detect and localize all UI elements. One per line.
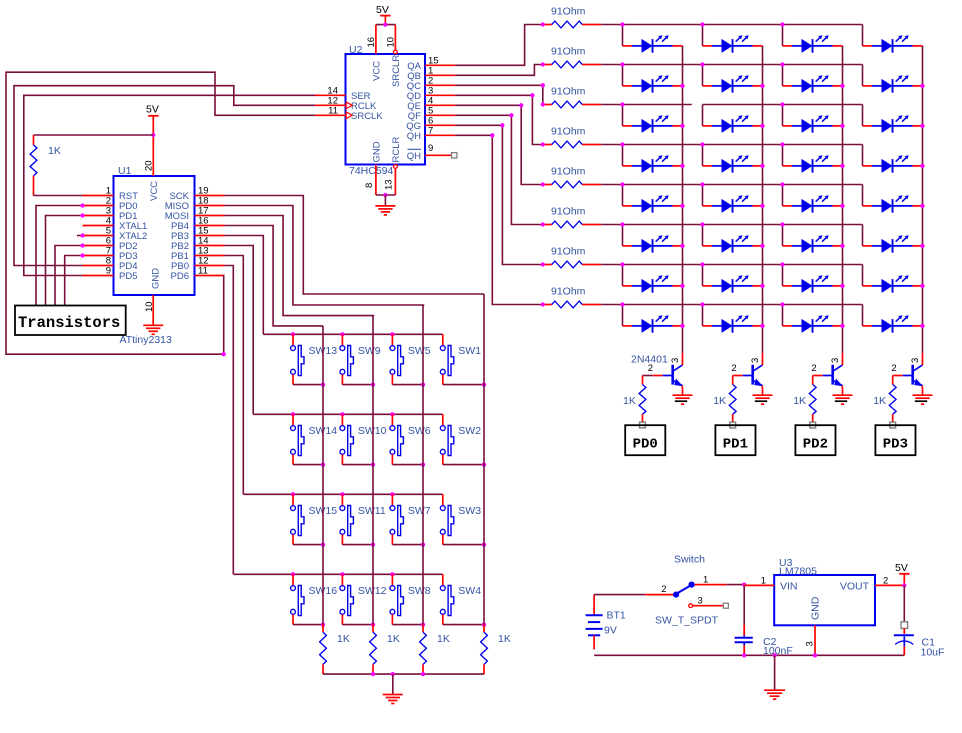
- wire LED row1 col1 drop: [622, 25, 624, 46]
- node LED row6 col3 drop: [780, 222, 784, 226]
- label U1: [118, 165, 132, 177]
- label 91Ohm row 5: [551, 166, 586, 178]
- U2 pin 9 QH-bar: [407, 143, 457, 162]
- U1 GND pin name: [151, 268, 162, 289]
- wire LED row4 col4 drop: [862, 145, 864, 166]
- svg-text:1K: 1K: [793, 395, 806, 407]
- wire LED row4 col1 drop: [622, 145, 624, 166]
- resistor 91Ohm row 2: [543, 61, 601, 68]
- node SW10 column join: [371, 462, 375, 466]
- svg-text:PD0: PD0: [633, 437, 658, 453]
- U1 pin 3 PD1: [83, 206, 138, 223]
- wire LED row1 col4 drop: [862, 25, 864, 46]
- label 2N4401: [631, 354, 668, 366]
- svg-text:1: 1: [761, 575, 766, 586]
- LED D1: [623, 35, 683, 53]
- node LED row8 col1 drop: [620, 302, 624, 306]
- node QD corner: [530, 93, 534, 97]
- label 91Ohm row 4: [551, 126, 586, 138]
- svg-text:GND: GND: [151, 268, 162, 289]
- label BT1: [607, 610, 626, 622]
- LED D32: [863, 315, 923, 333]
- svg-text:SW8: SW8: [408, 585, 431, 597]
- wire QH to row 8 resistor: [455, 135, 543, 304]
- node cathode col3 row3: [840, 124, 844, 128]
- label Q1 pin 3: [670, 358, 681, 363]
- wire SW5 to column: [392, 384, 423, 386]
- label U3: [779, 557, 793, 569]
- node LED row4 col3 drop: [780, 142, 784, 146]
- wire LED row6 col3 drop: [782, 225, 784, 246]
- svg-text:3: 3: [750, 358, 761, 363]
- svg-text:BT1: BT1: [607, 610, 626, 622]
- node LED row8 col2 drop: [700, 302, 704, 306]
- wire LED row3 col1 drop: [622, 105, 624, 126]
- node SW8 column join: [421, 622, 425, 626]
- wire Q4 base corner: [892, 375, 894, 377]
- switch SW13: [291, 334, 304, 384]
- node PD0 box: [625, 425, 665, 455]
- wire LED row6 col2 drop: [702, 225, 704, 246]
- resistor 91Ohm row 5: [543, 181, 601, 188]
- wire LED row3 col2 drop: [702, 105, 704, 126]
- wire LED cathode column 4: [922, 46, 924, 353]
- node cathode col4 row5: [920, 204, 924, 208]
- resistor 1K pulldown col1: [320, 625, 327, 675]
- IC U1 ATtiny2313 body: [114, 176, 195, 295]
- node SW5 column join: [421, 382, 425, 386]
- U2 VCC pin name: [372, 61, 383, 81]
- wire U1 pin 12 to keypad row 4: [225, 266, 234, 575]
- U2 pin 13 RCLR: [384, 165, 398, 195]
- svg-text:10: 10: [144, 301, 155, 312]
- node gnd stem: [772, 653, 776, 657]
- resistor 91Ohm row 4: [543, 141, 601, 148]
- node SW1 column join: [482, 382, 486, 386]
- wire LED row2 col2 drop: [702, 65, 704, 86]
- label SW7: [408, 505, 431, 517]
- svg-text:QH: QH: [407, 151, 421, 162]
- node cathode col2 row8: [760, 324, 764, 328]
- svg-text:1K: 1K: [387, 633, 400, 645]
- node cathode col4 row7: [920, 284, 924, 288]
- switch SW7: [390, 494, 403, 544]
- label Q4 pin 3: [910, 358, 921, 363]
- node cathode col4 row3: [920, 124, 924, 128]
- node LED row4 col1 drop: [620, 142, 624, 146]
- svg-text:5V: 5V: [146, 104, 159, 116]
- wire SW8 to column: [392, 624, 423, 626]
- node LED row7 col1 drop: [620, 262, 624, 266]
- node row 7 resistor left: [541, 262, 545, 266]
- switch SW9: [340, 334, 353, 384]
- svg-text:3: 3: [910, 358, 921, 363]
- capacitor C1 10uF: [894, 628, 914, 655]
- U1 pin 9 PD5: [83, 266, 138, 283]
- wire battery to switch: [594, 594, 673, 596]
- label Q3 pin 3: [830, 358, 841, 363]
- node cathode col1 row3: [680, 124, 684, 128]
- svg-text:1K: 1K: [623, 395, 636, 407]
- label C2: [763, 636, 777, 648]
- svg-text:91Ohm: 91Ohm: [551, 46, 586, 58]
- LED D16: [863, 155, 923, 173]
- node cathode col3 row2: [840, 84, 844, 88]
- U1 pin 4 XTAL1: [83, 216, 148, 233]
- resistor 91Ohm row 1: [543, 21, 601, 28]
- node cathode col3 row5: [840, 204, 844, 208]
- node row 4 resistor left: [541, 142, 545, 146]
- node row2 tap SW14: [291, 412, 295, 416]
- node cathode col4 row8: [920, 324, 924, 328]
- node gnd C2: [742, 653, 746, 657]
- label SW6: [408, 425, 431, 437]
- node cathode col2 row7: [760, 284, 764, 288]
- node cathode col2 row5: [760, 204, 764, 208]
- switch SW1: [440, 334, 453, 384]
- wire Q3 base corner: [812, 375, 814, 377]
- node cathode col3 row7: [840, 284, 844, 288]
- wire power ground stem: [774, 655, 776, 689]
- wire SW9 to column: [342, 384, 373, 386]
- node VOUT junction: [902, 583, 906, 587]
- svg-text:1K: 1K: [713, 395, 726, 407]
- U1 pin 20 VCC: [144, 135, 155, 176]
- wire U1 pin 19 to keypad column 4: [225, 196, 485, 295]
- wire U1 pin 17 to keypad column 2: [225, 216, 375, 316]
- label SW15: [309, 505, 338, 517]
- svg-text:3: 3: [830, 358, 841, 363]
- wire QD to row 4 resistor: [455, 95, 543, 144]
- node row 6 resistor left: [541, 222, 545, 226]
- label SW14: [309, 425, 338, 437]
- node QH corner: [490, 133, 494, 137]
- LED D17: [623, 195, 683, 213]
- U2 pin 10 SRCLR: [386, 25, 398, 54]
- wire LED row8 col2 drop: [702, 305, 704, 326]
- svg-text:SW9: SW9: [358, 345, 381, 357]
- svg-text:SW3: SW3: [458, 505, 481, 517]
- U2 pin 7 QH: [407, 125, 456, 142]
- node SW9 column join: [371, 382, 375, 386]
- node LED row8 col3 drop: [780, 302, 784, 306]
- node row 3 resistor left: [541, 102, 545, 106]
- wire LED row 4 bus: [601, 144, 862, 146]
- node PD6 corner: [222, 352, 226, 356]
- wire LED row8 col3 drop: [782, 305, 784, 326]
- LED D10: [703, 115, 763, 133]
- U1 pin 17 MOSI: [165, 206, 225, 223]
- wire keypad ground stem: [392, 674, 394, 694]
- node gnd U3: [813, 653, 817, 657]
- wire SW15 to column: [293, 544, 323, 546]
- resistor 1K pull-up: [30, 135, 37, 196]
- U1 pin 13 PB1: [171, 246, 224, 263]
- node row3 tap SW11: [340, 492, 344, 496]
- label SW13: [309, 345, 338, 357]
- U1 pin 16 PB4: [171, 216, 224, 233]
- resistor 91Ohm row 3: [543, 101, 601, 108]
- svg-text:9V: 9V: [604, 625, 617, 637]
- U2 pin 15 QA: [407, 55, 455, 72]
- node row4 tap SW8: [390, 572, 394, 576]
- node row2 tap SW6: [390, 412, 394, 416]
- switch SW16: [291, 574, 304, 624]
- label Q1 pin 2: [648, 363, 653, 374]
- svg-text:SW2: SW2: [458, 425, 481, 437]
- ground at Q4: [913, 395, 933, 404]
- LED D19: [783, 195, 843, 213]
- label SW9: [358, 345, 381, 357]
- LED D15: [783, 155, 843, 173]
- label switch pin 2: [661, 584, 666, 595]
- svg-text:3: 3: [805, 641, 816, 646]
- U1 pin 14 PB2: [171, 236, 224, 253]
- switch SW10: [340, 414, 353, 464]
- wire LED cathode column 3: [842, 46, 844, 353]
- ground at Q2: [753, 395, 773, 404]
- wire LED row4 col2 drop: [702, 145, 704, 166]
- node LED row1 col1 drop: [620, 22, 624, 26]
- svg-text:Transistors: Transistors: [18, 314, 120, 332]
- wire LED row 7 bus: [601, 264, 862, 266]
- svg-text:11: 11: [328, 105, 338, 116]
- LED D3: [783, 35, 843, 53]
- node QF corner: [509, 113, 513, 117]
- label 1K base Q1: [623, 395, 636, 407]
- node QE corner: [519, 103, 523, 107]
- label 91Ohm row 2: [551, 46, 586, 58]
- node SW4 column join: [482, 622, 486, 626]
- power 5V at U2: [376, 4, 391, 25]
- switch SW12: [340, 574, 353, 624]
- U2 pin 16 VCC: [366, 25, 377, 54]
- wire switch pin1 to VIN: [695, 584, 745, 586]
- node keypad ground bus: [391, 672, 395, 676]
- resistor 91Ohm row 6: [543, 221, 601, 228]
- LED D20: [863, 195, 923, 213]
- svg-text:9: 9: [106, 266, 111, 277]
- svg-text:74HC594: 74HC594: [349, 165, 394, 177]
- wire LED row2 col1 drop: [622, 65, 624, 86]
- label Q4 pin 2: [891, 363, 896, 374]
- label SW10: [358, 425, 387, 437]
- wire SW13 to column: [293, 384, 323, 386]
- U3 pin 3 GND: [805, 625, 816, 655]
- svg-text:PD1: PD1: [723, 437, 748, 453]
- wire LED row3 col4 drop: [862, 105, 864, 126]
- node row1 tap SW13: [291, 332, 295, 336]
- wire 1K top: [34, 134, 154, 136]
- svg-text:3: 3: [698, 596, 703, 607]
- wire Q2 base corner: [732, 375, 734, 377]
- LED D6: [703, 75, 763, 93]
- U2 pin 4 QE: [407, 95, 455, 112]
- switch SW4: [440, 574, 453, 624]
- wire SW7 to column: [392, 544, 423, 546]
- label Q2 pin 2: [731, 363, 736, 374]
- ground at U2: [375, 206, 395, 215]
- U1 pin 1 RST: [83, 186, 139, 203]
- resistor 1K pulldown col2: [370, 625, 377, 675]
- node cathode col3 row8: [840, 324, 844, 328]
- node row4 tap SW12: [340, 572, 344, 576]
- node LED row3 col1 drop: [620, 102, 624, 106]
- label switch pin 1: [703, 575, 708, 586]
- switch SW2: [440, 414, 453, 464]
- wire XTAL2 stub: [77, 235, 83, 237]
- node cathode col1 row6: [680, 244, 684, 248]
- wire LED row5 col4 drop: [862, 185, 864, 206]
- svg-text:9: 9: [428, 143, 433, 154]
- wire U2 gnd stem: [384, 195, 386, 206]
- U3 GND pin name: [809, 596, 821, 620]
- label SW_T_SPDT: [655, 615, 719, 627]
- svg-text:13: 13: [384, 179, 395, 190]
- svg-text:8: 8: [364, 183, 375, 188]
- label Switch: [674, 554, 705, 566]
- ground at keypad: [383, 695, 403, 704]
- svg-text:QH: QH: [407, 131, 421, 142]
- U2 pin 3 QD: [407, 85, 456, 102]
- node SW14 column join: [321, 462, 325, 466]
- svg-text:RCLR: RCLR: [391, 136, 402, 162]
- wire LED row 6 bus: [601, 224, 862, 226]
- U2 pin 2 QC: [407, 75, 456, 92]
- node PD3 stub: [80, 253, 84, 257]
- node LED row6 col2 drop: [700, 222, 704, 226]
- svg-text:SW4: SW4: [458, 585, 481, 597]
- node keypad ground bus: [421, 672, 425, 676]
- switch SW3: [440, 494, 453, 544]
- U2 pin 5 QF: [408, 105, 456, 122]
- node row3 tap SW7: [390, 492, 394, 496]
- resistor 1K base Q3: [809, 376, 816, 422]
- wire PD6 to SRCLK: [6, 72, 315, 354]
- terminal PD2 input: [810, 422, 816, 428]
- ground at U1: [143, 325, 163, 334]
- label SW1: [458, 345, 481, 357]
- svg-text:5V: 5V: [376, 4, 389, 16]
- label 91Ohm row 8: [551, 286, 586, 298]
- U1 pin 8 PD4: [83, 256, 138, 273]
- label 74HC594: [349, 165, 394, 177]
- wire SW16 to column: [293, 624, 323, 626]
- wire LED row7 col2 drop: [702, 265, 704, 286]
- label SW16: [309, 585, 338, 597]
- LED D4: [863, 35, 923, 53]
- wire SW14 to column: [293, 464, 323, 466]
- svg-text:2: 2: [661, 584, 666, 595]
- node cathode col4 row6: [920, 244, 924, 248]
- wire QF to row 6 resistor: [455, 115, 543, 224]
- wire LED row4 col3 drop: [782, 145, 784, 166]
- label 10uF: [921, 646, 945, 658]
- label 1K pulldown col1: [337, 633, 350, 645]
- node cathode col4 row2: [920, 84, 924, 88]
- label 1K pulldown col4: [498, 633, 511, 645]
- U1 pin 7 PD3: [83, 246, 138, 263]
- svg-text:VIN: VIN: [780, 580, 798, 592]
- wire VOUT to C1: [903, 585, 905, 621]
- wire U1 pin 16 to keypad column 1: [225, 226, 324, 326]
- U2 pin 11 SRCLK: [315, 105, 383, 122]
- U1 VCC pin name: [149, 181, 160, 201]
- node SW15 column join: [321, 542, 325, 546]
- terminal C1: [901, 622, 908, 629]
- U1 pin 15 PB3: [171, 226, 224, 243]
- label SW11: [358, 505, 386, 517]
- wire keypad row 4 bus: [233, 573, 442, 575]
- wire VIN junction to C2: [743, 585, 745, 625]
- resistor 91Ohm row 8: [543, 301, 601, 308]
- node SW11 column join: [371, 542, 375, 546]
- label 91Ohm row 6: [551, 206, 586, 218]
- label 91Ohm row 7: [551, 246, 586, 258]
- svg-text:1K: 1K: [437, 633, 450, 645]
- ground at power: [764, 690, 785, 699]
- label 100nF: [763, 645, 793, 657]
- svg-text:U1: U1: [118, 165, 132, 177]
- LED D28: [863, 275, 923, 293]
- U1 pin 2 PD0: [83, 196, 138, 213]
- node cathode col2 row4: [760, 164, 764, 168]
- svg-text:VOUT: VOUT: [840, 580, 870, 592]
- label SW4: [458, 585, 481, 597]
- Transistors label box: [15, 306, 126, 336]
- svg-text:91Ohm: 91Ohm: [551, 6, 586, 18]
- wire PD1 to transistors box: [46, 216, 83, 306]
- svg-text:1K: 1K: [48, 145, 61, 157]
- LED D18: [703, 195, 763, 213]
- node row 2 resistor left: [541, 62, 545, 66]
- wire LED row5 col3 drop: [782, 185, 784, 206]
- LED D25: [623, 275, 683, 293]
- U2 SRCLR pin name: [391, 55, 402, 87]
- LED D21: [623, 235, 683, 253]
- svg-text:91Ohm: 91Ohm: [551, 86, 586, 98]
- svg-text:91Ohm: 91Ohm: [551, 126, 586, 138]
- svg-text:SRCLR: SRCLR: [391, 55, 402, 87]
- terminal PD1 input: [730, 422, 736, 428]
- node LED row7 col3 drop: [780, 262, 784, 266]
- wire SW2 to column: [443, 464, 484, 466]
- U1 pin 18 MISO: [165, 196, 225, 213]
- resistor 1K base Q4: [889, 376, 896, 422]
- svg-text:2: 2: [891, 363, 896, 374]
- node SW12 column join: [371, 622, 375, 626]
- transistor Q1 2N4401: [653, 353, 683, 395]
- LED D27: [783, 275, 843, 293]
- svg-text:ATtiny2313: ATtiny2313: [120, 334, 172, 346]
- wire QC to row 3 resistor: [455, 85, 543, 104]
- wire LED cathode column 1: [682, 46, 684, 353]
- svg-text:7: 7: [428, 125, 433, 136]
- node cathode col3 row6: [840, 244, 844, 248]
- wire U2 vcc tie: [376, 24, 396, 26]
- node PD3 box: [875, 425, 915, 455]
- switch SW1 SPDT: [673, 582, 695, 608]
- LED D11: [783, 115, 843, 133]
- node LED row2 col3 drop: [780, 62, 784, 66]
- svg-text:11: 11: [198, 266, 208, 277]
- label 91Ohm row 1: [551, 6, 586, 18]
- wire keypad row 3 bus: [243, 493, 442, 495]
- node cathode col2 row3: [760, 124, 764, 128]
- U1 pin 5 XTAL2: [83, 226, 148, 243]
- node row 5 resistor left: [541, 182, 545, 186]
- resistor 1K base Q2: [729, 376, 736, 422]
